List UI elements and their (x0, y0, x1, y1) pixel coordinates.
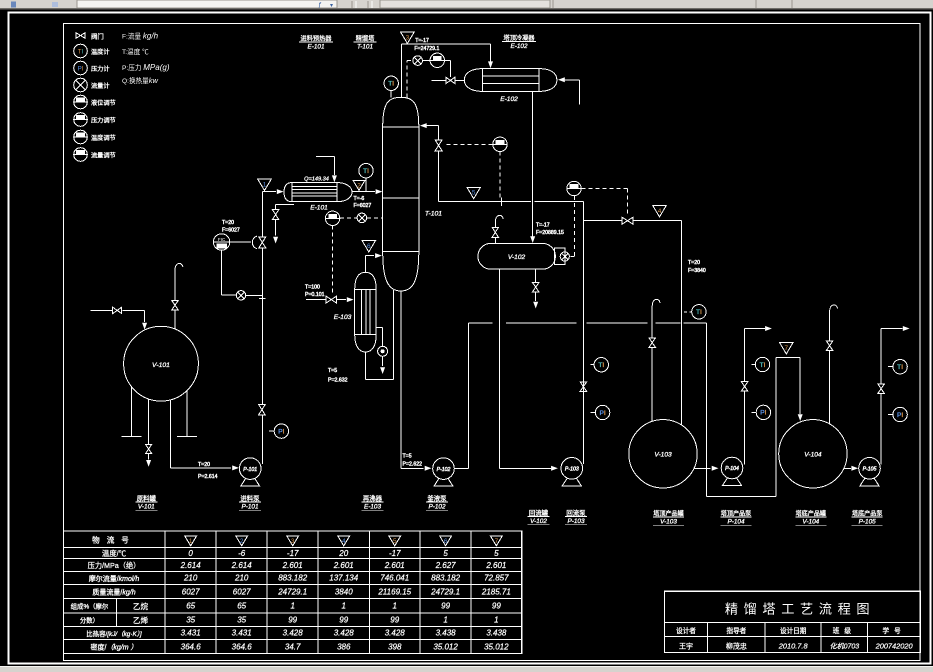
steam trap on E-103 condensate (376, 327, 387, 374)
svg-text:1: 1 (263, 182, 267, 189)
svg-text:Q=149.34: Q=149.34 (304, 177, 329, 183)
svg-text:摩尔流量/kmol/h: 摩尔流量/kmol/h (89, 574, 140, 583)
svg-text:F=3840: F=3840 (688, 268, 706, 274)
label 再沸器 E-103 (362, 494, 384, 511)
svg-text:塔顶产品罐: 塔顶产品罐 (653, 510, 683, 518)
legend controller symbol 温度调节 (74, 130, 88, 144)
label 塔顶产品罐 V-103 (653, 510, 684, 526)
svg-text:210: 210 (183, 574, 198, 583)
pump P-104 (721, 457, 743, 485)
svg-text:班级: 班级 (833, 626, 856, 635)
svg-text:F=20889.15: F=20889.15 (536, 230, 564, 236)
svg-text:指导者: 指导者 (727, 626, 747, 635)
svg-text:V-101: V-101 (138, 504, 155, 511)
svg-text:压力/MPa（绝）: 压力/MPa（绝） (88, 561, 141, 570)
pressure gauge PI on P-101 discharge (269, 424, 289, 438)
wire hot stream inlet to E-101 top (316, 157, 337, 183)
svg-text:密度/（kg/m ）: 密度/（kg/m ） (90, 643, 137, 652)
wire V-101 drain with valve (146, 400, 151, 467)
valve on P-104 discharge (741, 382, 748, 392)
svg-text:3.428: 3.428 (385, 629, 406, 638)
wire dashed controller to reflux valve (444, 144, 493, 146)
svg-text:-6: -6 (238, 549, 246, 558)
svg-text:4: 4 (658, 208, 662, 215)
svg-text:386: 386 (337, 642, 351, 651)
valve feed control valve with actuator (252, 236, 265, 248)
pressure gauge PI on P-104 discharge (752, 405, 771, 419)
svg-text:塔底产品泵: 塔底产品泵 (852, 510, 882, 518)
svg-text:回流罐: 回流罐 (529, 508, 549, 517)
svg-text:F:流量 kg/h: F:流量 kg/h (122, 32, 159, 41)
svg-text:2.601: 2.601 (485, 561, 506, 570)
wire controller to cooling water valve (445, 60, 451, 77)
svg-text:T:温度 ℃: T:温度 ℃ (122, 47, 149, 56)
svg-text:精馏塔: 精馏塔 (356, 35, 375, 43)
wire FIC to flow element (222, 250, 263, 295)
wire bottoms product line P-102 to V-104 (454, 323, 802, 497)
transmitter X on temperature loop (357, 213, 367, 223)
valve on raw feed line (113, 307, 122, 313)
legend pressure gauge symbol PI (74, 61, 88, 75)
status bar sliver (bottom chrome) (0, 667, 933, 672)
svg-text:21169.15: 21169.15 (377, 587, 411, 596)
svg-text:塔底产品罐: 塔底产品罐 (796, 510, 826, 518)
thermometer TI on P-104 discharge (752, 357, 770, 371)
svg-text:比热容/[kJ/（kg·K）]: 比热容/[kJ/（kg·K）] (86, 629, 142, 638)
legend controller symbol 液位调节 (74, 95, 88, 109)
wire V-102 drain with valve (533, 269, 538, 308)
svg-text:4: 4 (342, 538, 346, 545)
svg-text:PI: PI (760, 410, 766, 417)
svg-text:流量计: 流量计 (91, 82, 110, 90)
svg-text:P-105: P-105 (863, 467, 877, 473)
wire steam line into E-103 (306, 297, 354, 302)
svg-text:TI: TI (363, 168, 369, 175)
svg-text:T-101: T-101 (357, 44, 374, 51)
svg-text:流量调节: 流量调节 (91, 152, 116, 160)
svg-text:746.041: 746.041 (380, 574, 409, 583)
wire overhead vapor line to E-102 (401, 44, 493, 97)
stream node 2 triangle (353, 180, 365, 190)
svg-text:V-103: V-103 (654, 452, 672, 459)
title block headers (676, 626, 906, 635)
svg-text:TI: TI (78, 48, 84, 55)
svg-text:2.614: 2.614 (180, 561, 202, 570)
svg-text:2010.7.8: 2010.7.8 (778, 642, 809, 651)
svg-text:5: 5 (443, 549, 448, 558)
wire P-103 discharge riser (582, 202, 584, 464)
svg-text:Q:换热量kw: Q:换热量kw (122, 76, 159, 85)
svg-text:7: 7 (495, 538, 499, 545)
svg-text:P=2.622: P=2.622 (403, 461, 423, 467)
svg-text:1: 1 (189, 538, 193, 545)
svg-text:2.601: 2.601 (282, 561, 303, 570)
svg-text:34.7: 34.7 (285, 642, 301, 651)
valve on P-105 discharge (878, 384, 885, 394)
wire P-104 discharge riser and product exit arrow (745, 326, 772, 465)
svg-text:3.428: 3.428 (334, 629, 355, 638)
svg-text:5: 5 (494, 549, 499, 558)
svg-text:液位调节: 液位调节 (91, 99, 116, 107)
svg-text:3: 3 (291, 538, 295, 545)
label 塔底产品罐 V-104 (795, 510, 826, 526)
svg-text:200742020: 200742020 (875, 642, 914, 651)
svg-text:6027: 6027 (233, 587, 251, 596)
svg-text:V-101: V-101 (152, 362, 170, 369)
svg-text:2.614: 2.614 (231, 561, 253, 570)
svg-text:进料预热器: 进料预热器 (301, 35, 333, 43)
valve on E-101 drain (272, 210, 278, 220)
svg-text:TI: TI (388, 81, 394, 88)
label 进料泵 P-101 (239, 494, 261, 511)
svg-text:99: 99 (492, 602, 501, 611)
svg-text:阀门: 阀门 (91, 31, 104, 40)
title block frame (665, 591, 921, 652)
svg-text:压力调节: 压力调节 (91, 117, 116, 125)
svg-text:99: 99 (441, 602, 450, 611)
vessel V-101 support legs (121, 387, 196, 437)
svg-text:E-103: E-103 (334, 314, 352, 321)
svg-text:137.134: 137.134 (329, 574, 358, 583)
node tick on riser (259, 297, 266, 299)
wire condensate line E-102 to V-102 (530, 91, 535, 243)
svg-text:学号: 学号 (883, 626, 906, 635)
legend controller symbol 流量调节 (74, 148, 88, 162)
title block values (679, 642, 913, 651)
svg-text:塔顶冷凝器: 塔顶冷凝器 (504, 34, 536, 42)
svg-text:5: 5 (393, 538, 397, 545)
svg-text:T-101: T-101 (425, 211, 442, 218)
application toolbar sliver (top chrome) (0, 0, 933, 10)
svg-text:2: 2 (240, 538, 244, 545)
valve cooling water control valve (446, 77, 455, 83)
label 回流泵 P-103 (565, 508, 587, 525)
wire reboiler vapor return to column (366, 253, 382, 272)
svg-text:T=-6: T=-6 (354, 196, 365, 202)
svg-text:塔顶产品泵: 塔顶产品泵 (721, 510, 751, 518)
stream node 7 triangle (780, 343, 793, 354)
svg-text:PI: PI (897, 412, 903, 419)
svg-text:分数）: 分数） (80, 616, 99, 625)
label 塔顶产品泵 P-104 (721, 510, 752, 526)
wire P-101 discharge riser to E-101 (262, 189, 283, 464)
svg-text:6: 6 (444, 538, 448, 545)
table data values (180, 549, 511, 652)
svg-text:2.601: 2.601 (384, 561, 405, 570)
svg-text:王宇: 王宇 (679, 642, 693, 651)
svg-text:-17: -17 (389, 549, 401, 558)
svg-text:PI: PI (278, 428, 284, 435)
svg-text:E-101: E-101 (310, 205, 328, 212)
svg-text:P-105: P-105 (859, 519, 876, 526)
vessel V-103 distillate product tank (629, 420, 697, 488)
legend valve symbol (76, 33, 85, 39)
svg-text:精馏塔工艺流程图: 精馏塔工艺流程图 (725, 602, 875, 617)
svg-text:F=6027: F=6027 (222, 228, 240, 234)
svg-text:T=5: T=5 (328, 368, 337, 374)
svg-text:再沸器: 再沸器 (363, 494, 383, 503)
valve on V-102 vent (492, 227, 498, 237)
svg-text:6: 6 (367, 243, 371, 250)
valve on V-101 drain (145, 444, 151, 453)
vessel V-103 vent gooseneck with valve (652, 299, 660, 421)
pump P-105 (859, 458, 881, 486)
svg-text:V-103: V-103 (660, 519, 677, 526)
svg-text:V-102: V-102 (530, 518, 547, 525)
wire FIC to control valve on riser (230, 241, 251, 243)
svg-text:原料罐: 原料罐 (137, 494, 157, 503)
svg-text:35.012: 35.012 (484, 642, 509, 651)
column T-101 shell (383, 97, 419, 291)
svg-text:T=20: T=20 (688, 260, 700, 266)
svg-text:364.6: 364.6 (232, 642, 253, 651)
svg-text:1: 1 (443, 616, 447, 625)
svg-text:P-101: P-101 (243, 467, 257, 473)
svg-text:1: 1 (342, 602, 346, 611)
svg-text:24729.1: 24729.1 (277, 587, 307, 596)
pressure gauge PI on P-105 discharge (888, 407, 907, 421)
svg-text:3840: 3840 (335, 587, 353, 596)
svg-text:FIC: FIC (218, 237, 226, 242)
svg-text:210: 210 (234, 574, 249, 583)
label 精馏塔 T-101 (354, 35, 377, 51)
wire dashed controller to transmitter and column (340, 217, 383, 219)
vessel V-104 vent gooseneck with valve (830, 305, 838, 424)
svg-text:T=5: T=5 (403, 454, 412, 460)
svg-text:35.012: 35.012 (433, 642, 458, 651)
wire V-101 outlet to P-101 (171, 400, 239, 471)
svg-text:T=100: T=100 (305, 284, 320, 290)
svg-text:进料泵: 进料泵 (240, 494, 260, 503)
valve distillate control valve (622, 217, 633, 224)
thermometer TI on column dome (384, 76, 398, 97)
pump P-103 (561, 458, 583, 486)
svg-text:T=20: T=20 (222, 220, 234, 226)
svg-text:2: 2 (357, 183, 361, 190)
svg-text:温度/℃: 温度/℃ (102, 549, 127, 558)
thermometer TI on feed line (359, 164, 373, 191)
stream data table grid (63, 531, 521, 654)
svg-text:883.182: 883.182 (431, 574, 460, 583)
wire E-101 drain with valve (273, 204, 294, 243)
vessel V-104 bottoms product tank (779, 420, 847, 488)
svg-text:3.438: 3.438 (486, 629, 507, 638)
svg-text:F=6027: F=6027 (354, 203, 372, 209)
temperature controller (325, 211, 339, 225)
svg-text:3: 3 (406, 35, 410, 42)
svg-text:P-103: P-103 (567, 518, 584, 525)
level gauge chamber on V-102 end (555, 248, 570, 264)
wire P-105 discharge riser and product exit arrow (881, 326, 910, 465)
svg-text:2185.71: 2185.71 (481, 587, 511, 596)
svg-text:釜液泵: 釜液泵 (427, 494, 447, 503)
svg-text:V-104: V-104 (804, 452, 822, 459)
wire V-103 outlet to P-104 (694, 466, 718, 471)
stream node 6 triangle (362, 241, 375, 252)
svg-text:7: 7 (785, 345, 789, 352)
valve on P-103 discharge (580, 382, 587, 392)
flow controller on reflux line (493, 137, 507, 151)
node flow tap tick on reflux line (501, 198, 503, 207)
label 回流罐 V-102 (528, 508, 550, 525)
svg-text:20: 20 (338, 549, 348, 558)
wire column bottoms line to P-102 (401, 291, 432, 471)
svg-text:3.438: 3.438 (436, 629, 457, 638)
svg-text:3.431: 3.431 (181, 629, 201, 638)
svg-text:99: 99 (339, 616, 348, 625)
svg-text:883.182: 883.182 (278, 574, 307, 583)
svg-text:TI: TI (696, 309, 702, 316)
svg-text:PI: PI (599, 410, 605, 417)
pump P-102 (433, 458, 455, 486)
svg-text:ƒ: ƒ (318, 2, 322, 9)
svg-text:35: 35 (237, 616, 246, 625)
svg-text:35: 35 (186, 616, 195, 625)
svg-text:设计者: 设计者 (676, 626, 696, 635)
svg-text:T=-17: T=-17 (415, 38, 429, 44)
wire dashed level controller to V-102 level gauge (570, 196, 575, 257)
wire raw feed inlet line (90, 310, 147, 329)
svg-text:99: 99 (390, 616, 399, 625)
vessel V-101 feed tank (124, 326, 199, 401)
svg-text:P:压力 MPa(g): P:压力 MPa(g) (122, 63, 170, 72)
svg-text:24729.1: 24729.1 (430, 587, 460, 596)
heat exchanger E-102 condenser (464, 69, 557, 92)
wire V-104 outlet to P-105 (844, 466, 858, 471)
svg-text:压力计: 压力计 (91, 65, 110, 73)
wire reflux return line to column top (420, 123, 584, 202)
vessel V-101 vent gooseneck (175, 263, 183, 329)
vessel V-102 vent gooseneck (495, 215, 503, 243)
stream node 5 triangle (467, 187, 480, 198)
wire dashed level controller to distillate valve (581, 189, 627, 214)
label 原料罐 V-101 (135, 494, 157, 511)
svg-text:P-103: P-103 (565, 467, 579, 473)
valve on V-103 vent (649, 338, 655, 347)
svg-text:T=20: T=20 (198, 462, 210, 468)
svg-text:2.627: 2.627 (435, 561, 457, 570)
svg-text:0: 0 (188, 549, 193, 558)
svg-text:65: 65 (186, 602, 195, 611)
svg-text:P-104: P-104 (727, 519, 744, 526)
stream node 1 triangle (258, 179, 271, 190)
svg-text:乙烯: 乙烯 (133, 615, 149, 625)
valve reflux control valve (435, 140, 442, 151)
svg-text:2.601: 2.601 (333, 561, 354, 570)
svg-text:P-102: P-102 (437, 467, 451, 473)
svg-text:72.857: 72.857 (484, 574, 509, 583)
svg-text:TI: TI (897, 364, 903, 371)
svg-text:1: 1 (494, 616, 498, 625)
legend controller symbol 压力调节 (74, 113, 88, 127)
wire transmitter to pressure controller (423, 60, 431, 62)
pressure gauge PI on P-103 discharge (590, 405, 610, 419)
svg-text:T=-17: T=-17 (536, 223, 550, 229)
svg-text:组成%（摩尔: 组成%（摩尔 (71, 602, 109, 611)
label 塔顶冷凝器 E-102 (502, 34, 536, 50)
svg-text:F=24729.1: F=24729.1 (414, 46, 439, 52)
svg-text:P-104: P-104 (725, 466, 739, 472)
svg-text:-17: -17 (287, 549, 299, 558)
vessel V-102 reflux drum (478, 243, 556, 269)
wire cooling water inlet with arrow into E-102 right head (558, 77, 579, 104)
svg-text:1: 1 (290, 602, 294, 611)
wire dashed controller down to steam valve (332, 226, 334, 295)
thermometer TI on P-103 discharge (590, 358, 608, 372)
flow controller FIC (213, 234, 229, 250)
wire column bottoms to reboiler circulation (366, 290, 394, 379)
heat exchanger E-101 feed preheater (284, 183, 352, 202)
svg-text:设计日期: 设计日期 (780, 626, 807, 635)
label 进料预热器 E-101 (299, 35, 333, 51)
label 塔底产品泵 P-105 (852, 510, 883, 526)
thermometer TI on P-105 discharge (888, 360, 907, 374)
svg-text:3.428: 3.428 (283, 629, 304, 638)
svg-text:化机0703: 化机0703 (830, 643, 860, 651)
svg-text:3.431: 3.431 (232, 629, 252, 638)
svg-text:温度调节: 温度调节 (91, 134, 116, 142)
pressure controller for E-102 cooling water (430, 53, 444, 67)
svg-text:E-102: E-102 (510, 43, 527, 50)
svg-text:温度计: 温度计 (91, 48, 110, 56)
label 釜液泵 P-102 (426, 494, 448, 511)
svg-text:E-101: E-101 (307, 44, 324, 51)
pump P-101 (239, 458, 261, 486)
thermometer TI on distillate line (684, 305, 706, 319)
wire dashed controller to flow tap (499, 152, 501, 198)
svg-text:V-102: V-102 (508, 254, 526, 261)
table header 物流号 row labels (71, 535, 149, 652)
svg-text:P-101: P-101 (241, 504, 258, 511)
table stream number triangles (185, 536, 503, 546)
svg-text:398: 398 (388, 642, 402, 651)
flow element X rotameter (236, 291, 245, 300)
valve on P-101 discharge (259, 404, 266, 415)
svg-text:P=0.101: P=0.101 (305, 292, 325, 298)
stream node 3 triangle (401, 32, 414, 43)
wire pressure tap dashed from column dome (407, 61, 413, 98)
svg-text:质量流量/kg/h: 质量流量/kg/h (92, 587, 135, 596)
svg-text:6027: 6027 (182, 587, 200, 596)
svg-text:TI: TI (598, 362, 604, 369)
svg-text:TI: TI (760, 362, 766, 369)
svg-text:1: 1 (393, 602, 397, 611)
valve on V-102 drain (533, 283, 539, 292)
svg-text:▾: ▾ (330, 3, 333, 9)
svg-text:PI: PI (78, 65, 84, 72)
reboiler E-103 (355, 272, 377, 352)
svg-text:物流号: 物流号 (92, 535, 136, 545)
legend flowmeter symbol (74, 78, 88, 92)
wire cooling water outlet line (431, 79, 464, 81)
wire V-102 bottom outlet to P-103 (500, 269, 558, 471)
svg-text:P=2.614: P=2.614 (198, 474, 218, 480)
level controller for V-102 (567, 181, 581, 195)
svg-text:V-104: V-104 (802, 519, 819, 526)
svg-text:364.6: 364.6 (181, 642, 202, 651)
wire feed line E-101 to column with arrow (352, 189, 382, 194)
svg-text:99: 99 (288, 616, 297, 625)
svg-text:乙烷: 乙烷 (133, 601, 149, 611)
legend thermometer symbol TI (74, 44, 88, 58)
valve on V-101 vent (172, 301, 178, 310)
valve on V-104 vent (826, 341, 832, 350)
svg-text:回流泵: 回流泵 (566, 508, 586, 517)
svg-text:E-103: E-103 (364, 504, 381, 511)
valve steam control valve (326, 296, 337, 303)
stream node 4 triangle (653, 206, 666, 217)
svg-text:65: 65 (237, 602, 246, 611)
